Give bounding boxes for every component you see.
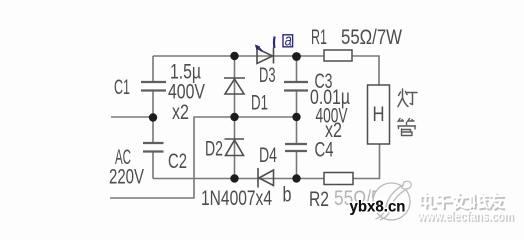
diode D2 xyxy=(225,139,245,156)
svg-text:55Ω/7W: 55Ω/7W xyxy=(341,26,402,49)
wire bottom rail xyxy=(153,144,380,179)
svg-text:D1: D1 xyxy=(251,92,268,115)
lamp label 灯 xyxy=(398,89,417,107)
watermark swirl logo xyxy=(373,181,411,220)
node junction dots xyxy=(149,52,301,183)
blue annotation arrow near D3 xyxy=(255,37,275,52)
wire middle rail and AC bottom return xyxy=(110,117,297,198)
diode D3 xyxy=(257,48,274,64)
svg-text:R1: R1 xyxy=(311,26,327,49)
svg-text:C1: C1 xyxy=(114,76,130,99)
lamp H box xyxy=(368,85,390,144)
svg-text:D2: D2 xyxy=(205,138,223,161)
diode D1 xyxy=(224,78,245,94)
capacitor C4 xyxy=(285,144,307,151)
svg-text:b: b xyxy=(283,184,292,207)
svg-text:a: a xyxy=(285,31,292,50)
watermark elecfans logo text 电子发烧友 (embossed) xyxy=(422,195,504,210)
wire top rail xyxy=(153,56,379,85)
svg-text:www.elecfans.com: www.elecfans.com xyxy=(417,209,514,224)
wire C1/C2 column xyxy=(152,56,154,179)
capacitor C1 xyxy=(141,82,166,91)
wire C3/C4 column xyxy=(296,56,298,179)
svg-text:H: H xyxy=(373,103,385,126)
svg-text:D3: D3 xyxy=(259,64,276,87)
svg-text:R2: R2 xyxy=(309,188,329,211)
svg-text:D4: D4 xyxy=(259,144,277,167)
svg-text:C4: C4 xyxy=(315,139,334,162)
svg-text:x2: x2 xyxy=(172,101,189,124)
resistor R1 xyxy=(324,50,352,61)
svg-text:1N4007x4: 1N4007x4 xyxy=(201,187,272,210)
svg-text:220V: 220V xyxy=(109,166,144,189)
svg-text:C2: C2 xyxy=(168,150,187,173)
capacitor C2 xyxy=(143,143,164,152)
lamp label 管 xyxy=(398,119,416,136)
wire D1/D2 column xyxy=(234,56,236,179)
svg-text:ybx8.cn: ybx8.cn xyxy=(350,199,406,216)
diode D4 xyxy=(258,168,274,188)
resistor R2 xyxy=(324,173,353,185)
wire AC top stub to C1/C2 junction xyxy=(111,116,153,118)
capacitor C3 xyxy=(284,82,308,91)
node a label (blue boxed) xyxy=(283,31,293,50)
